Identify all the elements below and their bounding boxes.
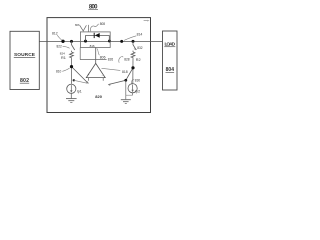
- switch S1 blade: [72, 45, 75, 50]
- svg-text:R1: R1: [61, 56, 66, 60]
- arrowhead left input: [86, 81, 89, 84]
- label 832 with squiggle: [134, 46, 143, 50]
- op-amp U1 comparator: [86, 63, 105, 77]
- current source Ip2: [128, 84, 137, 93]
- outer box (controller module): [47, 18, 151, 113]
- node dot left kink: [73, 79, 75, 81]
- wire comparator right input: [109, 68, 134, 85]
- svg-text:812: 812: [52, 32, 58, 36]
- leader to label 818: [102, 68, 121, 70]
- svg-text:Ip2: Ip2: [135, 90, 140, 94]
- wire shallow leader left: [74, 80, 87, 83]
- label 822 with leader: [57, 45, 70, 49]
- input stub right: [102, 78, 104, 81]
- svg-text:832: 832: [137, 46, 143, 50]
- wire to ground right: [132, 93, 134, 95]
- wire diode right stub: [108, 35, 110, 41]
- stub below kink: [125, 80, 127, 99]
- wire to ground left: [70, 93, 72, 98]
- svg-text:826: 826: [108, 58, 114, 62]
- right-center squiggle leader: [119, 57, 123, 63]
- source box 802: [10, 31, 39, 89]
- svg-text:830: 830: [135, 79, 141, 83]
- svg-text:+: +: [87, 73, 89, 77]
- node dot (812 tap): [61, 40, 64, 43]
- svg-text:822: 822: [57, 45, 63, 49]
- ground left: [66, 99, 77, 103]
- node dot left junction: [70, 65, 73, 68]
- label 812 with leader: [52, 32, 62, 41]
- svg-text:R2: R2: [136, 58, 141, 62]
- leader squiggle under box: [97, 48, 100, 55]
- svg-text:818: 818: [122, 70, 128, 74]
- wire diode left stub: [85, 35, 87, 41]
- label 810 with squiggle: [56, 68, 70, 74]
- svg-text:810: 810: [56, 70, 62, 74]
- svg-text:806: 806: [75, 23, 80, 27]
- wire gate vertical: [95, 48, 97, 64]
- switch module box 806: [80, 32, 110, 48]
- svg-text:SOURCE: SOURCE: [14, 52, 36, 58]
- svg-text:-: -: [102, 73, 103, 77]
- wire horizontal mid: [80, 59, 106, 61]
- svg-text:816: 816: [90, 44, 95, 48]
- svg-text:820: 820: [95, 94, 102, 99]
- svg-text:814: 814: [137, 32, 143, 36]
- leader s-curve: [90, 24, 98, 31]
- svg-text:824: 824: [60, 52, 65, 56]
- resistor R1: [70, 52, 74, 59]
- svg-text:806: 806: [100, 56, 106, 60]
- tiny arrow top-right corner: [144, 20, 150, 22]
- svg-text:Ip1: Ip1: [77, 90, 82, 94]
- gate stub above box: [88, 25, 90, 32]
- wire comparator left input: [72, 67, 89, 84]
- leader v-curve: [80, 25, 87, 31]
- svg-text:828: 828: [124, 57, 130, 61]
- main wire: [39, 40, 162, 42]
- load box 804: [163, 31, 178, 90]
- ground right: [121, 100, 131, 104]
- svg-text:808: 808: [100, 22, 106, 26]
- node dot left branch: [70, 40, 73, 43]
- current source Ip1: [67, 84, 76, 93]
- arrowhead right input: [108, 83, 111, 85]
- node dot (814 tap): [120, 40, 123, 43]
- resistor R2: [131, 52, 135, 59]
- input stub left: [88, 78, 90, 81]
- node dot right branch: [132, 40, 135, 43]
- left branch vertical: [71, 41, 73, 83]
- label 814 with leader: [124, 32, 142, 40]
- wire kink from box bottom-left: [79, 48, 81, 60]
- right branch vertical: [132, 41, 134, 83]
- node dot right junction: [131, 66, 134, 69]
- switch S2 blade: [133, 45, 136, 50]
- title 800: [88, 4, 98, 10]
- diode D1: [86, 33, 110, 38]
- label 830 with squiggle: [131, 79, 140, 85]
- node dot diode left stub: [84, 40, 87, 43]
- node dot diode right stub: [108, 40, 111, 43]
- node dot right kink: [124, 79, 127, 82]
